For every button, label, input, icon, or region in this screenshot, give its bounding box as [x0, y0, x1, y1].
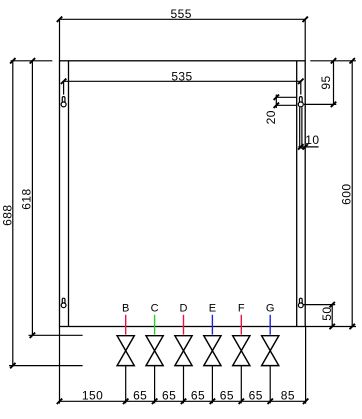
dim 10 ext slot right	[301, 107, 303, 149]
svg-text:C: C	[151, 302, 159, 314]
svg-text:G: G	[266, 302, 275, 314]
dim 688 line	[12, 61, 14, 366]
valve B body	[117, 336, 134, 366]
keyhole bottom-right	[298, 298, 303, 307]
bottom tick F	[239, 399, 244, 404]
valve D stem	[183, 366, 185, 404]
dim 20 line	[275, 95, 277, 109]
svg-text:20: 20	[264, 110, 278, 124]
bottom ext left	[59, 327, 61, 404]
dim 618 tick top	[30, 58, 35, 63]
valve tick C (green)	[154, 315, 156, 335]
dim 688 tick top	[10, 58, 15, 63]
valve tick E (blue)	[211, 315, 213, 335]
bottom tick end	[303, 399, 308, 404]
bottom ext right	[305, 327, 307, 404]
dim 50 tick bottom	[330, 324, 335, 329]
svg-text:65: 65	[133, 389, 147, 403]
dim 618 tick bottom	[30, 333, 35, 338]
dim 618 line	[31, 61, 33, 336]
dim 688 ext bottom	[9, 365, 83, 367]
dim 10 tick left	[298, 144, 303, 149]
keyhole bottom-left	[61, 298, 66, 307]
dim 95 tick top	[331, 58, 336, 63]
keyhole top-right	[298, 97, 303, 107]
svg-text:E: E	[209, 302, 216, 314]
ext top-right horizontal	[310, 60, 356, 62]
dim 688 tick bottom	[10, 363, 15, 368]
svg-text:50: 50	[320, 306, 334, 320]
ext top-left horizontal	[11, 60, 53, 62]
dim 535 line	[64, 80, 301, 82]
dim 10 ext slot left	[299, 107, 301, 149]
svg-text:600: 600	[339, 184, 353, 205]
dim 600 line	[351, 61, 353, 327]
keyhole top-left	[61, 97, 66, 107]
dim 20 tick bottom	[274, 103, 279, 108]
dim 535 tick right	[298, 79, 303, 84]
valve G body	[262, 336, 279, 366]
dim 555 line	[60, 18, 306, 20]
bottom tick 0	[57, 399, 62, 404]
dim 50 line	[331, 305, 333, 327]
valve tick D (red)	[183, 315, 185, 335]
valve G stem	[269, 366, 271, 404]
svg-text:D: D	[180, 302, 188, 314]
dim 618 ext bottom	[29, 334, 83, 336]
bottom dim line	[60, 400, 306, 402]
dim 555 tick right	[303, 17, 308, 22]
valve E body	[204, 336, 221, 366]
dim 10 tick right	[303, 144, 308, 149]
valve B stem	[125, 366, 127, 404]
valve tick G (blue)	[269, 315, 271, 335]
svg-text:85: 85	[281, 389, 295, 403]
dim 20 ext bottom	[276, 104, 296, 106]
dim 535 leader right	[300, 81, 302, 94]
valve F body	[233, 336, 250, 366]
valve E stem	[211, 366, 213, 404]
bottom tick B	[123, 399, 128, 404]
dim 95 ext keyhole	[304, 103, 336, 105]
panel inner stile right	[296, 61, 298, 327]
svg-text:65: 65	[220, 389, 234, 403]
valve tick F (red)	[240, 315, 242, 335]
svg-text:555: 555	[171, 7, 192, 21]
dim 95 line	[333, 61, 335, 105]
svg-text:618: 618	[20, 188, 34, 209]
valve F stem	[240, 366, 242, 404]
bottom tick D	[181, 399, 186, 404]
dim 95 tick bottom	[331, 102, 336, 107]
dim 50 tick top	[330, 302, 335, 307]
valve D body	[175, 336, 192, 366]
dim 10 line	[298, 146, 318, 148]
dim 535 tick left	[61, 79, 66, 84]
dim 20 ext top	[276, 96, 296, 98]
svg-text:10: 10	[305, 133, 319, 147]
bottom tick G	[268, 399, 273, 404]
svg-text:65: 65	[191, 389, 205, 403]
dim 535 leader left	[63, 81, 65, 94]
svg-text:65: 65	[249, 389, 263, 403]
dim 50 ext keyhole	[303, 304, 336, 306]
bottom tick C	[152, 399, 157, 404]
dim 50 ext bottom edge extended	[305, 326, 356, 328]
svg-text:150: 150	[82, 389, 103, 403]
svg-text:535: 535	[171, 69, 192, 83]
bottom tick E	[210, 399, 215, 404]
panel outer rectangle	[60, 61, 306, 327]
dim 600 tick top	[350, 58, 355, 63]
dim 555 tick left	[57, 17, 62, 22]
panel inner stile left	[68, 61, 70, 327]
dim 600 tick bottom	[350, 324, 355, 329]
dim 555 ext left	[59, 19, 61, 61]
valve tick B (red)	[125, 315, 127, 335]
valve C body	[146, 336, 163, 366]
svg-text:65: 65	[162, 389, 176, 403]
dim 555 ext right	[304, 19, 306, 61]
svg-text:B: B	[122, 302, 129, 314]
svg-text:F: F	[238, 302, 245, 314]
svg-text:95: 95	[319, 75, 333, 89]
svg-text:688: 688	[1, 205, 15, 226]
valve C stem	[154, 366, 156, 404]
dim 20 tick top	[274, 95, 279, 100]
